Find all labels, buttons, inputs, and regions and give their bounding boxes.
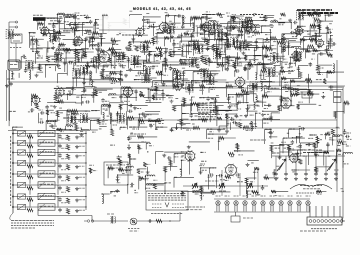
value label — [154, 65, 158, 67]
junction — [292, 137, 293, 138]
wire — [216, 48, 218, 64]
ground — [180, 83, 184, 86]
value label — [319, 104, 322, 106]
capacitor C20 — [298, 29, 302, 32]
capacitor C96 — [212, 109, 216, 112]
wire — [52, 58, 59, 60]
junction — [126, 167, 127, 168]
wire — [254, 85, 271, 87]
ref label — [241, 42, 246, 44]
junction — [262, 46, 263, 47]
wire — [289, 63, 291, 68]
junction — [74, 30, 75, 31]
wire — [93, 89, 95, 103]
value label — [279, 45, 283, 47]
wire — [257, 64, 269, 66]
wire — [73, 77, 85, 79]
ref label — [178, 34, 183, 36]
junction — [109, 72, 110, 73]
junction — [235, 57, 236, 58]
heading 2ND I.F. — [202, 14, 215, 16]
wire — [200, 24, 222, 26]
wire — [83, 70, 85, 85]
wire — [165, 14, 176, 16]
wire — [219, 125, 228, 127]
wire — [216, 176, 218, 188]
wire — [147, 89, 149, 99]
inductor L32 — [261, 81, 263, 91]
value label — [192, 44, 195, 46]
resistor R50 — [201, 56, 204, 62]
wire — [228, 95, 230, 104]
resistor R59 — [180, 62, 186, 65]
wire — [207, 14, 225, 16]
value label — [245, 49, 250, 51]
wire — [246, 20, 248, 28]
resistor R113 — [201, 119, 206, 122]
transformer T23 — [80, 114, 87, 123]
ground — [162, 154, 166, 157]
junction — [269, 136, 270, 137]
ref label — [226, 12, 230, 14]
value label — [122, 172, 125, 174]
value label — [238, 35, 243, 37]
value label — [50, 105, 54, 107]
capacitor C79 — [214, 99, 217, 103]
value label — [120, 162, 123, 164]
label — [130, 158, 136, 160]
wire — [111, 52, 125, 54]
junction — [144, 47, 145, 48]
junction — [127, 97, 128, 98]
wire — [120, 71, 122, 86]
wire — [264, 87, 279, 89]
junction — [344, 129, 345, 130]
wire — [107, 168, 109, 178]
resistor R86 — [139, 94, 144, 97]
wire — [120, 88, 122, 96]
value label — [69, 60, 74, 62]
ref label — [126, 164, 130, 166]
junction — [208, 174, 209, 175]
value label — [330, 56, 333, 58]
value label — [65, 28, 69, 30]
wire — [96, 89, 107, 91]
wire — [297, 66, 299, 78]
wire — [49, 125, 57, 127]
wire — [235, 95, 237, 108]
wire — [130, 63, 142, 65]
ground — [115, 189, 119, 192]
resistor R60 — [218, 63, 224, 66]
value label — [175, 98, 178, 100]
ref label — [326, 51, 330, 53]
wire — [57, 57, 59, 68]
resistor R56 — [38, 64, 41, 70]
ground — [170, 100, 174, 103]
resistor R119 — [331, 129, 334, 135]
junction — [192, 192, 193, 193]
resistor R29 — [164, 36, 169, 39]
resistor R66 — [156, 71, 162, 74]
wire — [253, 48, 255, 57]
junction — [191, 119, 192, 120]
junction — [236, 94, 237, 95]
wire — [325, 14, 333, 16]
ground — [187, 145, 191, 148]
resistor R28 — [152, 38, 155, 44]
wire — [135, 59, 146, 61]
label — [85, 38, 89, 40]
ref label — [316, 50, 321, 52]
wire — [129, 15, 131, 28]
value label — [317, 22, 321, 24]
junction — [82, 101, 83, 102]
resistor R123 — [326, 133, 331, 136]
transformer T19 — [207, 75, 214, 84]
wire — [156, 48, 168, 50]
inductor L20 — [99, 55, 101, 65]
wire — [191, 81, 193, 89]
ground — [203, 29, 207, 32]
junction — [270, 29, 271, 30]
value label — [145, 187, 150, 189]
resistor R55 — [327, 53, 332, 56]
transformer T21 — [250, 82, 257, 91]
value label — [236, 103, 239, 105]
capacitor C80 — [227, 97, 230, 101]
wire — [216, 39, 229, 41]
value label — [330, 89, 334, 91]
ref label — [156, 29, 160, 31]
ref label — [254, 123, 257, 125]
value label — [307, 33, 310, 35]
wire — [183, 98, 185, 104]
value label — [195, 193, 199, 195]
ref label — [236, 108, 241, 110]
capacitor C31 — [255, 46, 259, 49]
resistor R157 — [194, 16, 200, 19]
capacitor C19 — [290, 31, 294, 34]
junction — [156, 72, 157, 73]
wire — [109, 49, 121, 51]
wire — [208, 87, 210, 92]
resistor R45 — [46, 56, 49, 62]
inductor L1 — [57, 13, 64, 15]
resistor R159 — [247, 19, 253, 22]
wire — [99, 126, 106, 128]
junction — [147, 151, 148, 152]
wire — [46, 64, 56, 66]
value label — [56, 53, 60, 55]
wire — [108, 22, 130, 24]
wire — [291, 94, 299, 96]
wire — [148, 121, 161, 123]
wire — [156, 85, 176, 87]
wire — [200, 186, 202, 194]
wire — [174, 104, 192, 106]
value label — [76, 96, 80, 98]
wire — [144, 62, 161, 64]
value label — [201, 29, 204, 31]
wire — [137, 45, 149, 47]
junction — [240, 45, 241, 46]
value label — [53, 26, 56, 28]
wire — [265, 104, 271, 106]
inductor L39 — [103, 112, 105, 119]
capacitor C21 — [327, 31, 331, 34]
junction — [85, 17, 86, 18]
junction — [75, 49, 76, 50]
wire — [120, 126, 127, 128]
wire — [281, 77, 301, 79]
wire — [214, 44, 235, 46]
ref label — [33, 32, 36, 34]
resistor R173 — [111, 51, 117, 54]
resistor R65 — [110, 72, 116, 75]
value label — [56, 97, 60, 99]
ground — [131, 38, 135, 41]
wire — [129, 141, 150, 143]
value label — [242, 89, 245, 91]
value label — [264, 108, 268, 110]
value label — [284, 98, 288, 100]
junction — [202, 55, 203, 56]
value label — [143, 65, 146, 67]
transformer T32 — [174, 71, 181, 80]
value label — [140, 123, 144, 125]
junction — [143, 16, 144, 17]
wire — [316, 150, 335, 152]
wire — [216, 106, 218, 113]
wire — [333, 135, 340, 137]
value label — [273, 52, 277, 54]
value label — [230, 105, 235, 107]
inductor L40 — [110, 113, 112, 120]
ref label — [226, 123, 229, 125]
ref label — [169, 20, 173, 22]
wire — [226, 38, 228, 47]
wire — [309, 152, 327, 154]
wire — [72, 24, 85, 26]
wire — [82, 23, 84, 36]
ref label — [138, 175, 141, 177]
transformer T15 — [81, 66, 88, 75]
junction — [90, 65, 91, 66]
wire — [46, 121, 57, 123]
ref label — [181, 156, 184, 158]
value label — [144, 179, 148, 181]
wire — [217, 109, 238, 111]
wire — [171, 127, 187, 129]
value label — [320, 139, 323, 141]
value label — [61, 53, 64, 55]
ref label — [162, 61, 165, 63]
wire — [189, 141, 210, 143]
capacitor C89 — [267, 104, 271, 107]
junction — [325, 133, 326, 134]
ground — [225, 130, 229, 133]
wire — [150, 90, 163, 92]
wire — [263, 38, 284, 40]
resistor R114 — [217, 117, 222, 120]
value label — [271, 87, 276, 89]
ref label — [38, 109, 43, 111]
resistor R97 — [191, 102, 197, 105]
label — [312, 35, 316, 37]
wire — [49, 33, 61, 35]
wire — [315, 32, 329, 34]
wire — [65, 127, 67, 130]
wire — [245, 55, 247, 61]
capacitor C36 — [56, 53, 60, 56]
transformer T18 — [142, 73, 149, 82]
junction — [112, 44, 113, 45]
value label — [212, 193, 215, 195]
capacitor C83 — [108, 104, 111, 108]
wire — [318, 53, 326, 55]
value label — [328, 42, 332, 44]
wire — [261, 80, 272, 82]
resistor R89 — [236, 93, 242, 96]
value label — [312, 53, 316, 55]
wire — [135, 56, 141, 58]
wire — [246, 16, 253, 18]
value label — [202, 169, 207, 171]
wire — [303, 36, 305, 51]
junction — [56, 129, 57, 130]
value label — [38, 67, 42, 69]
wire — [248, 160, 259, 162]
capacitor C82 — [85, 100, 89, 103]
wire — [54, 120, 56, 125]
wire — [74, 27, 76, 35]
ref label — [101, 75, 104, 77]
ref label — [248, 36, 253, 38]
wire — [209, 167, 216, 169]
resistor R80 — [200, 85, 205, 88]
value label — [270, 24, 274, 26]
resistor R112 — [180, 119, 183, 125]
ref label — [182, 67, 186, 69]
junction — [149, 51, 150, 52]
wire — [127, 57, 129, 69]
value label — [155, 41, 159, 43]
junction — [47, 110, 48, 111]
ref label — [276, 165, 281, 167]
value label — [308, 137, 313, 139]
value label — [216, 66, 220, 68]
capacitor C133 — [283, 37, 286, 41]
wire — [208, 168, 210, 174]
value label — [284, 147, 289, 149]
resistor R139 — [108, 167, 113, 170]
ref label — [67, 13, 71, 15]
value label — [70, 27, 74, 29]
wire — [208, 58, 210, 66]
wire — [75, 124, 77, 130]
junction — [226, 86, 227, 87]
resistor R2 — [191, 16, 197, 19]
ground — [63, 62, 67, 65]
capacitor C37 — [127, 57, 130, 61]
wire — [241, 44, 258, 46]
ref label — [82, 52, 86, 54]
wire — [211, 102, 231, 104]
junction — [83, 78, 84, 79]
wire — [289, 128, 299, 130]
wire — [192, 72, 194, 86]
resistor R172 — [96, 49, 103, 52]
inductor L4 — [108, 23, 110, 33]
wire — [74, 30, 91, 32]
ground — [288, 19, 292, 22]
junction — [57, 57, 58, 58]
wire — [283, 42, 285, 51]
inductor L19 — [94, 57, 104, 58]
ref label — [91, 58, 94, 60]
wire — [288, 149, 301, 151]
wire — [75, 26, 93, 28]
resistor R144 — [315, 167, 318, 173]
junction — [245, 55, 246, 56]
ground — [236, 35, 240, 38]
ref label — [98, 47, 101, 49]
ref label — [206, 11, 210, 13]
capacitor C47 — [119, 64, 123, 67]
resistor R171 — [83, 51, 86, 57]
wire — [91, 65, 109, 67]
wire — [101, 39, 103, 46]
wire — [163, 38, 165, 46]
resistor R158 — [231, 16, 236, 19]
wire — [44, 18, 46, 27]
value label — [228, 59, 233, 61]
wire — [262, 96, 264, 107]
transformer T4 — [215, 29, 222, 38]
ref label — [117, 182, 121, 184]
wire — [235, 58, 237, 71]
junction — [243, 47, 244, 48]
value label — [184, 60, 189, 62]
resistor R12 — [318, 25, 321, 30]
wire — [56, 74, 58, 83]
wire — [298, 65, 308, 67]
ref label — [204, 13, 207, 15]
value label — [238, 34, 242, 36]
value label — [225, 180, 229, 182]
wire — [243, 128, 245, 131]
resistor R175 — [159, 51, 162, 57]
wire — [189, 40, 209, 42]
wire — [135, 89, 137, 101]
capacitor C1 — [74, 15, 77, 19]
wire — [76, 94, 96, 96]
wire — [192, 32, 205, 34]
value label — [279, 18, 282, 20]
inductor L43 — [263, 118, 273, 119]
transformer T31 — [131, 56, 138, 65]
capacitor C67 — [134, 90, 137, 94]
value label — [218, 55, 221, 57]
wire — [265, 49, 267, 58]
wire — [290, 23, 292, 30]
capacitor C107 — [127, 136, 130, 140]
wire — [47, 102, 59, 104]
transformer T30 — [54, 53, 61, 62]
wire — [129, 135, 136, 137]
label — [171, 23, 175, 25]
